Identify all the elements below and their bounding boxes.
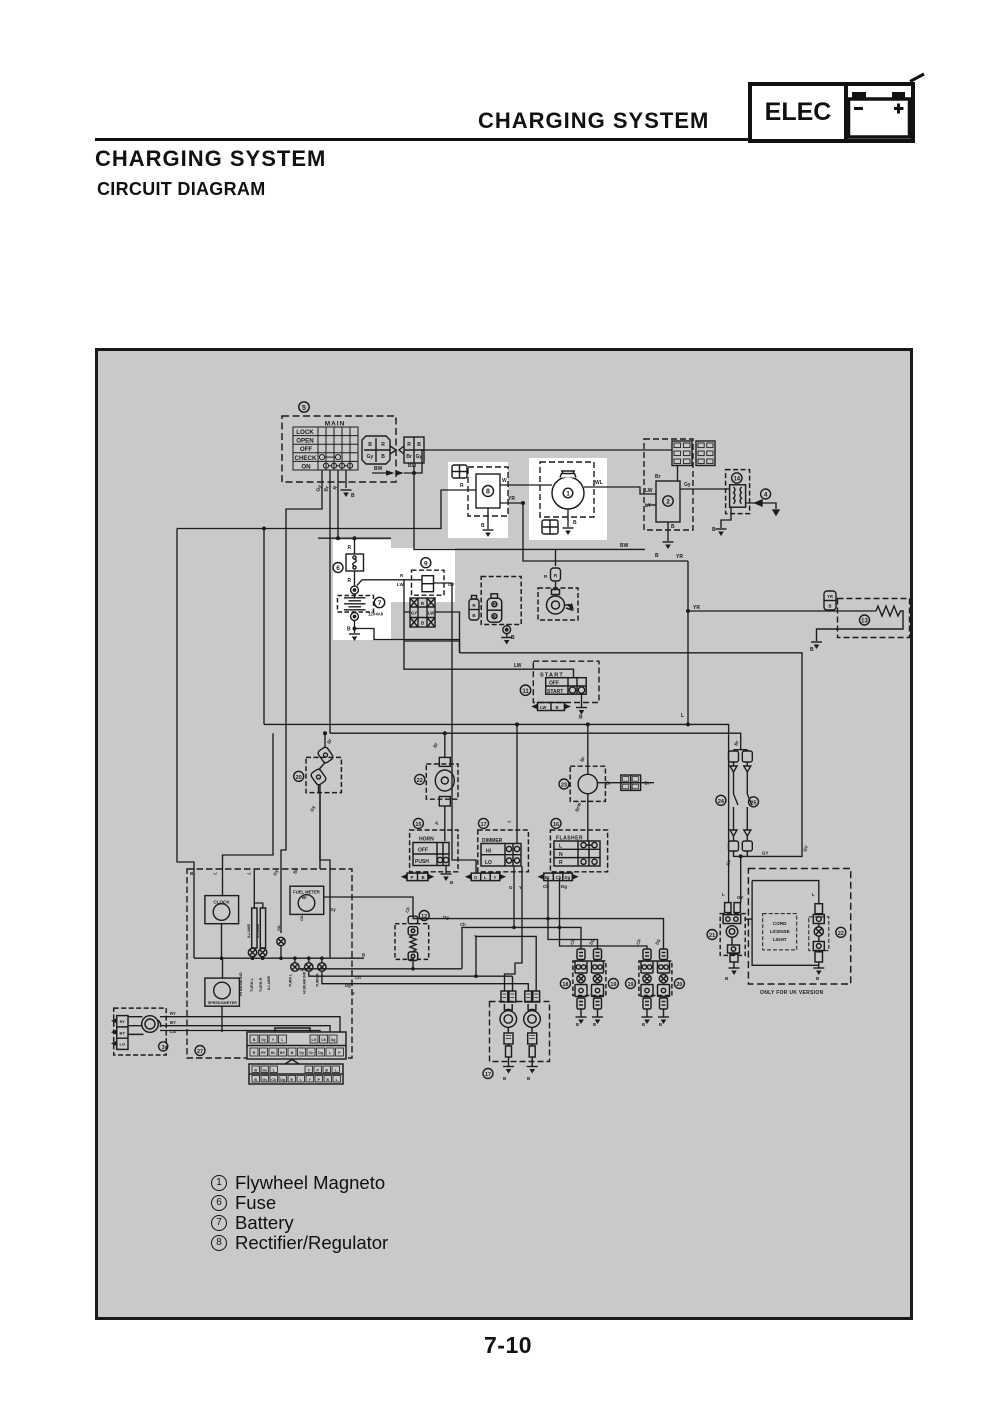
svg-text:14: 14 bbox=[733, 477, 740, 483]
svg-text:B: B bbox=[347, 627, 351, 633]
bus1 L horizontal bbox=[264, 724, 729, 902]
ground main switch B bbox=[341, 490, 352, 497]
wire resistor12 bottom bbox=[412, 961, 414, 969]
starter R connector bbox=[551, 568, 561, 581]
svg-text:ILLUME: ILLUME bbox=[256, 923, 260, 938]
twin fuse circled 25 bbox=[749, 797, 759, 807]
svg-text:LOCK: LOCK bbox=[296, 429, 314, 436]
svg-text:OIL: OIL bbox=[300, 914, 304, 921]
svg-text:B: B bbox=[828, 604, 831, 609]
svg-text:Ch: Ch bbox=[355, 975, 361, 980]
big R/B connector dashed box bbox=[481, 577, 521, 625]
tail circled 21 bbox=[707, 930, 717, 940]
wire clock bottom bbox=[221, 924, 223, 959]
svg-text:18: 18 bbox=[562, 982, 568, 988]
svg-text:LW: LW bbox=[514, 663, 522, 669]
fuel meter bbox=[290, 886, 324, 914]
highlight rectifier area bbox=[448, 462, 508, 538]
svg-text:B: B bbox=[326, 1078, 329, 1082]
wire flasher out 1 bbox=[548, 878, 598, 949]
wire flasher out 2 bbox=[560, 878, 648, 949]
svg-text:8: 8 bbox=[486, 489, 490, 496]
svg-text:B: B bbox=[422, 875, 425, 880]
wire turn bulb L out bbox=[299, 968, 462, 970]
svg-text:HI BEAM IND: HI BEAM IND bbox=[303, 971, 307, 994]
unit2 body bbox=[656, 481, 680, 522]
resistor12 dashed box bbox=[395, 924, 429, 960]
rear turn circled 20b bbox=[674, 979, 684, 989]
svg-text:2: 2 bbox=[666, 499, 670, 506]
svg-text:TURN L: TURN L bbox=[289, 973, 293, 987]
svg-text:Dg: Dg bbox=[561, 884, 567, 889]
svg-text:B: B bbox=[556, 705, 559, 710]
svg-text:B: B bbox=[368, 442, 372, 448]
BW inline connector bbox=[386, 470, 404, 476]
svg-text:GY: GY bbox=[737, 895, 744, 900]
tail dashed box bbox=[720, 914, 745, 956]
svg-text:B: B bbox=[351, 493, 355, 499]
wire LW relay to start switch bbox=[404, 580, 534, 669]
wire hibeam out bbox=[309, 971, 513, 991]
svg-text:OIL: OIL bbox=[277, 924, 281, 931]
svg-text:Y: Y bbox=[352, 991, 355, 996]
svg-text:BW: BW bbox=[408, 463, 417, 469]
rear turn bulb L bbox=[641, 949, 653, 1009]
wire drop to diode 20 bbox=[324, 733, 326, 748]
svg-text:OFF: OFF bbox=[549, 681, 559, 687]
wire illume bulbs to B bus bbox=[253, 946, 282, 959]
svg-text:B: B bbox=[290, 1078, 293, 1082]
wire R from main switch to fuse junction bbox=[337, 470, 339, 538]
wire dimmer L drop bbox=[516, 724, 518, 843]
svg-text:Gy: Gy bbox=[262, 1069, 267, 1073]
start switch ground bbox=[581, 693, 583, 707]
svg-text:Br: Br bbox=[655, 474, 661, 480]
resistor dashed box bbox=[838, 599, 910, 638]
svg-text:6: 6 bbox=[336, 565, 340, 572]
svg-text:TURN R: TURN R bbox=[259, 977, 263, 992]
svg-text:Dg: Dg bbox=[565, 875, 571, 880]
svg-text:PUSH: PUSH bbox=[415, 859, 429, 865]
illume bulbs bbox=[248, 948, 256, 956]
svg-text:YR: YR bbox=[508, 496, 515, 502]
wire fuse to battery bbox=[354, 571, 356, 586]
svg-text:YR: YR bbox=[693, 605, 700, 611]
svg-text:Y: Y bbox=[494, 875, 497, 880]
svg-text:20: 20 bbox=[676, 982, 682, 988]
svg-text:LG: LG bbox=[312, 1038, 317, 1042]
svg-text:LW: LW bbox=[428, 611, 436, 616]
svg-text:Gy: Gy bbox=[684, 482, 691, 488]
svg-text:SPEEDOMETER: SPEEDOMETER bbox=[208, 1001, 237, 1005]
svg-text:Ch: Ch bbox=[321, 1038, 326, 1042]
front turn pair dashed box bbox=[573, 961, 606, 996]
svg-text:L: L bbox=[722, 892, 725, 897]
starter body bbox=[547, 590, 573, 615]
wire diode20 down Gy bbox=[320, 784, 330, 958]
dimmer table bbox=[481, 844, 521, 867]
horn table bbox=[413, 843, 449, 866]
rear turn circled 19b bbox=[626, 979, 636, 989]
svg-text:LW: LW bbox=[645, 488, 653, 494]
coil dashed box bbox=[726, 470, 750, 514]
svg-text:FUEL METER: FUEL METER bbox=[293, 890, 320, 895]
svg-text:Gy: Gy bbox=[261, 1038, 266, 1042]
battery plates bbox=[344, 594, 366, 610]
svg-text:HI BEAM IND: HI BEAM IND bbox=[239, 972, 243, 996]
wire battery plus diagonal to relay R bbox=[357, 580, 422, 586]
svg-text:9: 9 bbox=[424, 560, 428, 567]
svg-text:ONLY FOR UK VERSION: ONLY FOR UK VERSION bbox=[760, 990, 824, 996]
svg-text:Dg: Dg bbox=[331, 1038, 336, 1042]
wire drop to bulb 22 bbox=[444, 733, 446, 757]
left connector dashed box bbox=[114, 1008, 167, 1055]
svg-text:B: B bbox=[381, 454, 385, 460]
svg-text:Br: Br bbox=[545, 875, 550, 880]
rectifier body bbox=[476, 474, 500, 508]
starter dashed box bbox=[538, 588, 578, 620]
wire 4P connector right to GY loop bbox=[404, 612, 460, 653]
svg-text:CORD: CORD bbox=[773, 921, 787, 926]
svg-text:27: 27 bbox=[197, 1049, 203, 1055]
bulb22 circled bbox=[415, 774, 425, 784]
relay body bbox=[422, 576, 434, 592]
wire speedometer bottom bbox=[221, 1006, 223, 1032]
rear turn bulb R bbox=[658, 949, 670, 1009]
dimmer dashed box bbox=[478, 830, 529, 872]
flasher table bbox=[554, 841, 600, 866]
flasher dashed box bbox=[550, 830, 607, 872]
horn connector below bbox=[403, 873, 433, 881]
svg-text:B: B bbox=[253, 1038, 256, 1042]
svg-text:Gy: Gy bbox=[367, 454, 374, 460]
svg-text:RY: RY bbox=[261, 1051, 266, 1055]
svg-text:R: R bbox=[407, 442, 411, 448]
wire starter feed R bbox=[555, 549, 557, 589]
svg-text:B: B bbox=[659, 1022, 662, 1027]
svg-text:19: 19 bbox=[627, 982, 633, 988]
svg-text:START: START bbox=[547, 689, 563, 695]
svg-text:CLOCK: CLOCK bbox=[213, 900, 230, 905]
resistor12 circled bbox=[419, 911, 429, 921]
svg-text:LIGHT: LIGHT bbox=[773, 937, 787, 942]
wire V177 down left side bbox=[177, 529, 194, 959]
main switch circled 5 bbox=[299, 402, 309, 412]
svg-text:L: L bbox=[681, 713, 684, 719]
tail light body bbox=[723, 903, 741, 968]
start switch circled 11 bbox=[520, 685, 530, 695]
main switch table bbox=[293, 427, 358, 470]
svg-text:B: B bbox=[291, 1051, 294, 1055]
wire twin fuse merge bbox=[734, 851, 748, 903]
rectifier connector 2x2 bbox=[452, 465, 467, 478]
svg-text:B: B bbox=[642, 1022, 645, 1027]
main switch dashed box bbox=[282, 416, 396, 482]
svg-text:11: 11 bbox=[522, 689, 529, 695]
circled 27 bbox=[195, 1046, 205, 1056]
diode20 dashed box bbox=[306, 757, 341, 792]
page heading bbox=[95, 146, 326, 172]
svg-text:LG: LG bbox=[120, 1042, 126, 1047]
svg-text:Dg: Dg bbox=[345, 983, 351, 988]
svg-text:ILLUME: ILLUME bbox=[267, 975, 271, 990]
wire horn ground link bbox=[445, 866, 447, 873]
bulb22 dashed box bbox=[426, 764, 458, 799]
ELEC box bbox=[748, 82, 915, 143]
wire YR vertical to bus1 bbox=[687, 561, 689, 724]
svg-text:R: R bbox=[460, 483, 464, 489]
svg-text:GY: GY bbox=[411, 611, 418, 616]
svg-text:Br: Br bbox=[645, 781, 650, 786]
svg-text:Br: Br bbox=[302, 895, 307, 900]
svg-text:B: B bbox=[810, 647, 814, 653]
svg-text:B: B bbox=[511, 635, 515, 641]
highlight relay area bbox=[391, 548, 455, 602]
wire relay GY right and down bbox=[434, 583, 477, 873]
svg-text:3: 3 bbox=[162, 1045, 165, 1051]
legend list bbox=[211, 1173, 388, 1253]
speedometer bbox=[205, 978, 240, 1006]
diode20 elements bbox=[310, 746, 334, 869]
svg-text:Br: Br bbox=[606, 781, 611, 786]
svg-text:R: R bbox=[348, 545, 352, 551]
svg-text:WL: WL bbox=[595, 480, 603, 486]
svg-text:Gy: Gy bbox=[299, 1051, 304, 1055]
wire bulb22 to horn bbox=[444, 806, 446, 841]
headlight bulb 2 bbox=[524, 991, 541, 1066]
svg-text:BY: BY bbox=[120, 1030, 126, 1035]
wire 4P connector left bbox=[404, 611, 410, 613]
wire grommet leads bbox=[160, 1017, 340, 1033]
svg-text:LY: LY bbox=[645, 503, 652, 509]
wire GY long loop right bbox=[460, 653, 803, 857]
svg-text:N: N bbox=[559, 852, 563, 858]
svg-text:B: B bbox=[655, 553, 659, 559]
small R/B connector bbox=[469, 596, 479, 621]
svg-text:B: B bbox=[576, 1022, 579, 1027]
svg-text:12V4Ah: 12V4Ah bbox=[368, 612, 384, 617]
svg-text:L: L bbox=[812, 892, 815, 897]
front turn circled 18 bbox=[560, 979, 570, 989]
resistor12 elements bbox=[408, 916, 418, 960]
speedo dashed box bbox=[187, 869, 352, 1058]
svg-text:BY: BY bbox=[170, 1020, 176, 1025]
wire Gy from main switch bbox=[281, 470, 322, 933]
magneto connector 2x2 bbox=[542, 520, 558, 534]
svg-text:R: R bbox=[381, 442, 385, 448]
diagram panel bbox=[97, 350, 912, 1319]
start switch table bbox=[546, 678, 587, 695]
battery circled 7 bbox=[374, 597, 384, 607]
svg-text:W: W bbox=[502, 478, 507, 484]
svg-text:24: 24 bbox=[718, 799, 725, 805]
svg-text:YR: YR bbox=[676, 554, 683, 560]
battery plus terminal bbox=[351, 586, 359, 594]
wire BW lower: connector B down and right to unit 2 bbox=[414, 466, 645, 549]
wire relay to connector 26 bbox=[598, 782, 655, 784]
svg-text:Gh: Gh bbox=[300, 967, 306, 972]
svg-text:R: R bbox=[253, 1051, 256, 1055]
svg-text:Dg: Dg bbox=[318, 1051, 323, 1055]
svg-text:B: B bbox=[254, 1078, 257, 1082]
svg-text:Ch: Ch bbox=[543, 884, 549, 889]
wire fuse feed R bbox=[354, 538, 356, 554]
svg-text:L: L bbox=[484, 875, 487, 880]
svg-text:ON: ON bbox=[301, 463, 311, 470]
twin fuse circled 24 bbox=[716, 795, 726, 805]
wire license L feed bbox=[745, 881, 819, 968]
svg-text:21: 21 bbox=[709, 933, 715, 939]
grommet bbox=[128, 1016, 161, 1035]
svg-text:B: B bbox=[254, 1069, 257, 1073]
start switch dashed box bbox=[533, 661, 599, 702]
svg-text:B: B bbox=[325, 1069, 328, 1073]
headlight bulb 1 bbox=[500, 991, 517, 1066]
license text box bbox=[763, 914, 797, 950]
wire Ch line bbox=[462, 927, 581, 968]
headlight circled 17 bbox=[483, 1069, 493, 1079]
wire speedo feed bbox=[222, 958, 224, 978]
wire B from main switch to ground bbox=[345, 470, 347, 488]
license bulb dashed box bbox=[809, 917, 829, 951]
svg-text:12: 12 bbox=[421, 914, 427, 920]
license circled 22 bbox=[836, 927, 846, 937]
svg-text:20: 20 bbox=[296, 775, 302, 781]
svg-text:4: 4 bbox=[764, 492, 768, 499]
wire H538 short link bbox=[318, 537, 391, 539]
horn circled 15 bbox=[413, 818, 423, 828]
unit2 connector C1 bbox=[672, 441, 692, 466]
wire turn bulb stubs bbox=[295, 958, 322, 963]
wire YR branch to resistor bbox=[688, 610, 876, 612]
svg-text:Dg: Dg bbox=[443, 915, 449, 920]
svg-text:15: 15 bbox=[415, 822, 421, 828]
illume resistors bbox=[252, 908, 266, 948]
upper connector strip bbox=[247, 1028, 346, 1059]
svg-text:LG: LG bbox=[170, 1029, 177, 1034]
svg-text:B: B bbox=[417, 442, 421, 448]
svg-text:19: 19 bbox=[610, 982, 616, 988]
battery icon bbox=[849, 74, 925, 137]
svg-text:B: B bbox=[573, 520, 577, 526]
resistor zigzag bbox=[817, 606, 904, 641]
unit2 connector C2 bbox=[696, 441, 715, 466]
svg-text:B: B bbox=[671, 524, 675, 530]
svg-text:16: 16 bbox=[553, 822, 559, 828]
svg-text:HORN: HORN bbox=[419, 837, 434, 843]
horn ground bbox=[441, 874, 452, 881]
svg-text:B: B bbox=[481, 523, 485, 529]
license bulb assembly bbox=[813, 904, 824, 962]
svg-text:13: 13 bbox=[861, 619, 868, 625]
svg-text:RY: RY bbox=[170, 1011, 176, 1016]
svg-text:R: R bbox=[559, 860, 563, 866]
wire illume feeds bbox=[254, 869, 262, 908]
clock bbox=[205, 896, 239, 924]
svg-text:17: 17 bbox=[480, 822, 486, 828]
rear turn pair dashed box bbox=[639, 961, 672, 996]
svg-text:TURN R: TURN R bbox=[316, 973, 320, 987]
dimmer circled 17 bbox=[479, 818, 489, 828]
svg-text:23: 23 bbox=[561, 783, 567, 789]
instrument wire labels bbox=[239, 914, 304, 996]
svg-text:RY: RY bbox=[120, 1019, 126, 1024]
svg-text:Br: Br bbox=[271, 1051, 276, 1055]
wire Br from main switch (long vertical to bus2) bbox=[329, 470, 331, 733]
wire battery B branch right bbox=[355, 629, 460, 653]
wire Y line bbox=[476, 936, 536, 991]
svg-text:ILLUME: ILLUME bbox=[247, 923, 251, 938]
highlight magneto area bbox=[529, 458, 607, 540]
wire fuel meter to resistor12 bbox=[324, 897, 413, 916]
rectifier wires bbox=[448, 485, 552, 529]
svg-text:25: 25 bbox=[750, 800, 756, 806]
svg-text:Ch: Ch bbox=[309, 1051, 314, 1055]
wire clock feed bbox=[223, 733, 274, 895]
fuse circled 6 bbox=[333, 563, 343, 573]
svg-text:B: B bbox=[593, 1022, 596, 1027]
svg-text:Y: Y bbox=[474, 934, 477, 939]
svg-text:Br: Br bbox=[406, 454, 412, 460]
wire YR rectifier branch down bbox=[523, 503, 688, 561]
big R/B connector ground bbox=[506, 625, 508, 637]
svg-text:1: 1 bbox=[566, 491, 570, 498]
fuse body bbox=[346, 554, 364, 571]
svg-text:OFF: OFF bbox=[418, 848, 428, 854]
rectifier U8 dashed box bbox=[468, 467, 508, 516]
plug circled 4 bbox=[761, 489, 771, 499]
svg-text:BW: BW bbox=[620, 543, 629, 549]
resistor circled 13 bbox=[860, 615, 870, 625]
svg-text:YR: YR bbox=[827, 594, 834, 599]
big R/B connector bbox=[487, 594, 502, 622]
wire drop flasher relay bbox=[587, 724, 589, 774]
main switch connector B bbox=[399, 437, 424, 463]
license big dashed box bbox=[748, 869, 850, 985]
horn dashed box bbox=[410, 830, 458, 872]
svg-text:TURN L: TURN L bbox=[250, 977, 254, 992]
svg-text:Gy: Gy bbox=[330, 907, 336, 912]
svg-text:Y: Y bbox=[519, 885, 522, 890]
svg-text:7: 7 bbox=[378, 600, 382, 607]
header title bbox=[478, 108, 709, 134]
wire H528 R distribution bbox=[177, 490, 448, 529]
svg-text:CHECK: CHECK bbox=[294, 455, 317, 462]
svg-text:22: 22 bbox=[417, 778, 423, 784]
svg-text:Ch: Ch bbox=[460, 922, 466, 927]
svg-text:GY: GY bbox=[448, 582, 455, 587]
headlight dashed box bbox=[490, 1002, 550, 1062]
unit2 dashed box bbox=[644, 439, 693, 530]
diode20 circled bbox=[294, 771, 304, 781]
page number bbox=[484, 1332, 532, 1359]
battery dashed box bbox=[338, 596, 374, 613]
svg-text:Dg: Dg bbox=[280, 1078, 285, 1082]
wire dimmer out Y bbox=[505, 866, 523, 991]
svg-text:MAIN: MAIN bbox=[325, 421, 346, 428]
front turn bulb L bbox=[575, 949, 587, 1009]
magneto dashed box bbox=[540, 462, 594, 517]
flasher relay dashed box bbox=[570, 766, 605, 801]
main switch wire labels bbox=[315, 463, 416, 499]
svg-text:L: L bbox=[559, 844, 562, 850]
highlight fuse battery column bbox=[333, 540, 391, 640]
wire battery minus down bbox=[354, 620, 356, 633]
front turn bulb R bbox=[592, 949, 604, 1009]
start switch connector below bbox=[533, 703, 569, 711]
relay circled 9 bbox=[421, 558, 431, 568]
junction dots bbox=[220, 471, 743, 978]
